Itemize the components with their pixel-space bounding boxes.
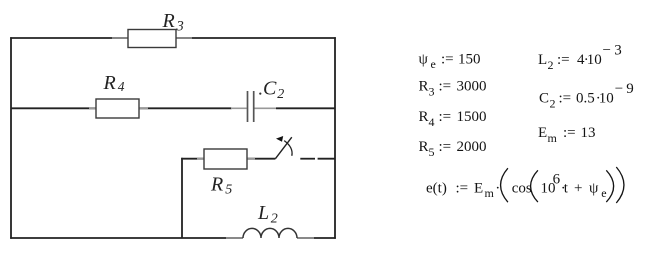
- label R5: [210, 174, 232, 198]
- svg-text:6: 6: [553, 172, 561, 188]
- equation inner right paren: [606, 170, 613, 202]
- label C2: [259, 78, 284, 102]
- wire R5 branch vertical: [181, 158, 183, 238]
- svg-text:−: −: [603, 43, 611, 59]
- svg-text:C: C: [539, 91, 549, 107]
- svg-text:R: R: [162, 10, 175, 32]
- value L2 := 4e-3: [538, 43, 622, 73]
- svg-text::=: :=: [559, 91, 572, 107]
- wire middle rail left: [11, 107, 232, 109]
- value R5 := 2000: [419, 139, 487, 159]
- svg-text:5: 5: [429, 145, 435, 159]
- svg-text:0.5: 0.5: [576, 91, 595, 107]
- wire left edge: [10, 37, 12, 239]
- wire bottom rail left: [10, 237, 243, 239]
- svg-text:3000: 3000: [457, 79, 487, 95]
- svg-text:E: E: [538, 125, 547, 141]
- svg-text:4: 4: [429, 115, 435, 129]
- svg-text::=: :=: [557, 52, 570, 68]
- value psi_e := 150: [419, 52, 481, 72]
- wire bottom rail right: [297, 237, 336, 239]
- svg-text:3: 3: [614, 43, 622, 59]
- value Em := 13: [538, 125, 596, 145]
- wire switch right contact dashes: [300, 158, 335, 160]
- svg-text:L: L: [257, 202, 269, 224]
- label R4: [103, 72, 125, 94]
- wire top rail: [10, 37, 336, 39]
- svg-text::=: :=: [456, 180, 469, 196]
- svg-text:·: ·: [495, 180, 500, 196]
- svg-text:−: −: [615, 81, 623, 97]
- svg-text:5: 5: [225, 183, 232, 198]
- svg-text:R: R: [103, 72, 116, 94]
- svg-text:13: 13: [581, 125, 596, 141]
- inductor L2: [243, 228, 297, 238]
- equation outer left paren: [501, 168, 508, 202]
- switch S arc: [284, 141, 292, 156]
- svg-text:10: 10: [587, 52, 602, 68]
- switch S blade: [275, 137, 291, 159]
- switch S arrowhead: [276, 136, 283, 142]
- equation e(t): [426, 180, 500, 200]
- svg-text::=: :=: [439, 79, 452, 95]
- svg-text:2000: 2000: [457, 139, 487, 155]
- svg-text:R: R: [419, 79, 429, 95]
- svg-text:e(t): e(t): [426, 180, 447, 196]
- resistor R5: [204, 149, 247, 169]
- svg-text::=: :=: [439, 139, 452, 155]
- svg-text:cos: cos: [512, 180, 532, 196]
- svg-text:L: L: [538, 52, 547, 68]
- capacitor C2: [248, 91, 254, 122]
- svg-text::=: :=: [439, 109, 452, 125]
- svg-text:e: e: [431, 57, 436, 71]
- svg-text:1500: 1500: [457, 109, 487, 125]
- svg-text::=: :=: [563, 125, 576, 141]
- svg-text:10: 10: [599, 91, 614, 107]
- value C2 := 0.5e-9: [539, 81, 634, 111]
- svg-text:150: 150: [458, 52, 481, 68]
- svg-text:4: 4: [118, 79, 125, 94]
- svg-text:9: 9: [626, 81, 634, 97]
- svg-text:3: 3: [429, 85, 435, 99]
- svg-text:ψ: ψ: [589, 180, 599, 196]
- equation outer right paren: [616, 167, 624, 203]
- svg-text:2: 2: [548, 58, 554, 72]
- svg-text:2: 2: [277, 87, 284, 102]
- label L2: [257, 202, 278, 226]
- svg-text:e: e: [601, 186, 606, 200]
- wire C2 lead stubs: [231, 107, 276, 109]
- label R3: [162, 10, 184, 34]
- value R3 := 3000: [419, 79, 487, 99]
- wire L2 lead stubs: [226, 237, 314, 239]
- wire R5 lead stubs: [197, 158, 255, 160]
- svg-text:m: m: [548, 131, 558, 145]
- svg-text:R: R: [210, 174, 223, 196]
- equation 10^6 t + psi_e: [541, 172, 607, 201]
- value R4 := 1500: [419, 109, 487, 129]
- wire middle rail right: [276, 107, 335, 109]
- svg-text:+: +: [574, 180, 582, 196]
- svg-text:m: m: [485, 186, 495, 200]
- wire right edge: [334, 37, 336, 239]
- wire R3 lead stubs: [112, 37, 192, 39]
- svg-text:2: 2: [271, 212, 278, 227]
- svg-text::=: :=: [441, 52, 454, 68]
- svg-text:t: t: [564, 180, 569, 196]
- wire R4 lead stubs: [89, 107, 148, 109]
- wire R5 branch horizontal: [181, 158, 275, 160]
- svg-text:2: 2: [550, 97, 556, 111]
- equation inner left paren: [531, 170, 538, 202]
- svg-text:3: 3: [176, 18, 184, 34]
- svg-text:ψ: ψ: [419, 52, 429, 68]
- resistor R3: [128, 30, 176, 48]
- svg-text:E: E: [474, 180, 483, 196]
- resistor R4: [96, 99, 139, 118]
- svg-text:C: C: [263, 78, 277, 100]
- svg-text:R: R: [419, 139, 429, 155]
- svg-text:R: R: [419, 109, 429, 125]
